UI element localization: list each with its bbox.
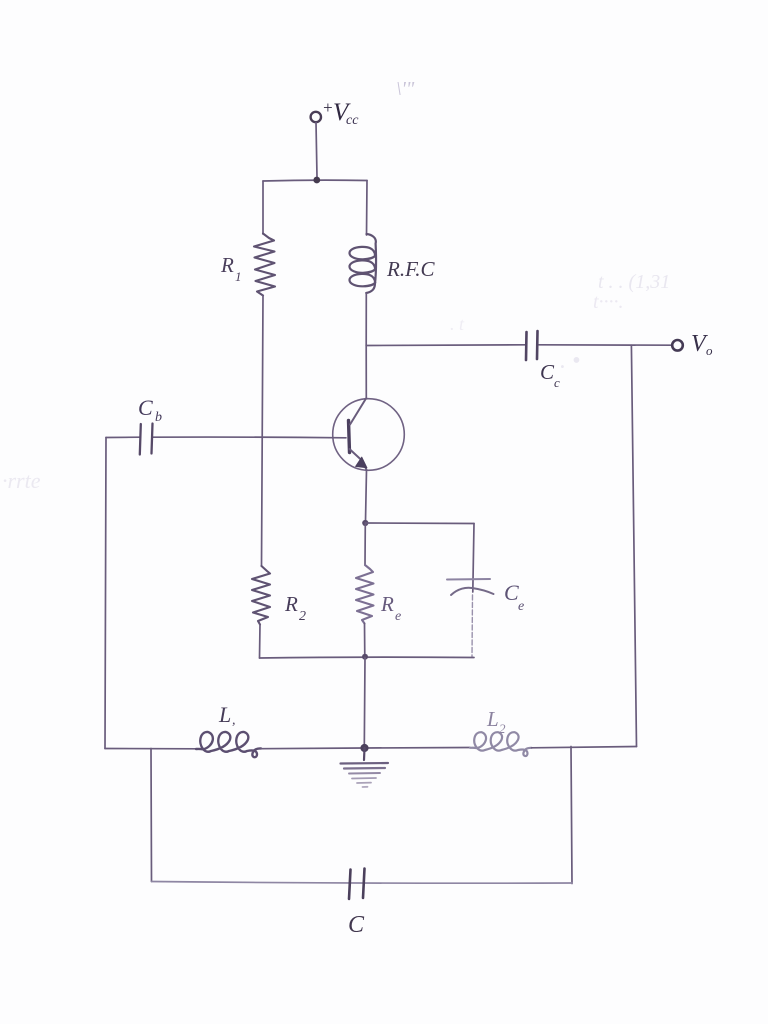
- svg-text:2: 2: [299, 609, 306, 624]
- svg-text:. •: . •: [560, 348, 580, 374]
- svg-text:. t: . t: [450, 314, 465, 334]
- svg-text:\'": \'": [396, 78, 415, 100]
- svg-text:C: C: [504, 580, 519, 605]
- svg-text:2: 2: [499, 721, 506, 736]
- svg-text:R: R: [284, 592, 298, 616]
- svg-text:e: e: [395, 609, 401, 624]
- svg-text:cc: cc: [346, 113, 359, 128]
- svg-text:C: C: [540, 360, 555, 384]
- svg-text:t . . (1,31: t . . (1,31: [598, 271, 670, 293]
- svg-text:+: +: [322, 98, 333, 117]
- svg-text:·rrte: ·rrte: [2, 468, 41, 493]
- svg-text:R: R: [380, 592, 394, 616]
- svg-text:c: c: [554, 375, 560, 390]
- svg-text:R: R: [220, 253, 234, 277]
- svg-text:R.F.C: R.F.C: [386, 257, 435, 281]
- svg-text:C: C: [138, 395, 153, 420]
- svg-text:e: e: [518, 599, 524, 614]
- svg-text:t····.: t····.: [593, 291, 624, 313]
- svg-text:o: o: [706, 343, 713, 358]
- svg-text:b: b: [155, 410, 162, 425]
- svg-text:1: 1: [235, 269, 242, 284]
- svg-text:C: C: [348, 912, 365, 938]
- svg-text:,: ,: [232, 713, 236, 728]
- svg-text:L: L: [486, 707, 499, 731]
- svg-text:L: L: [218, 702, 231, 727]
